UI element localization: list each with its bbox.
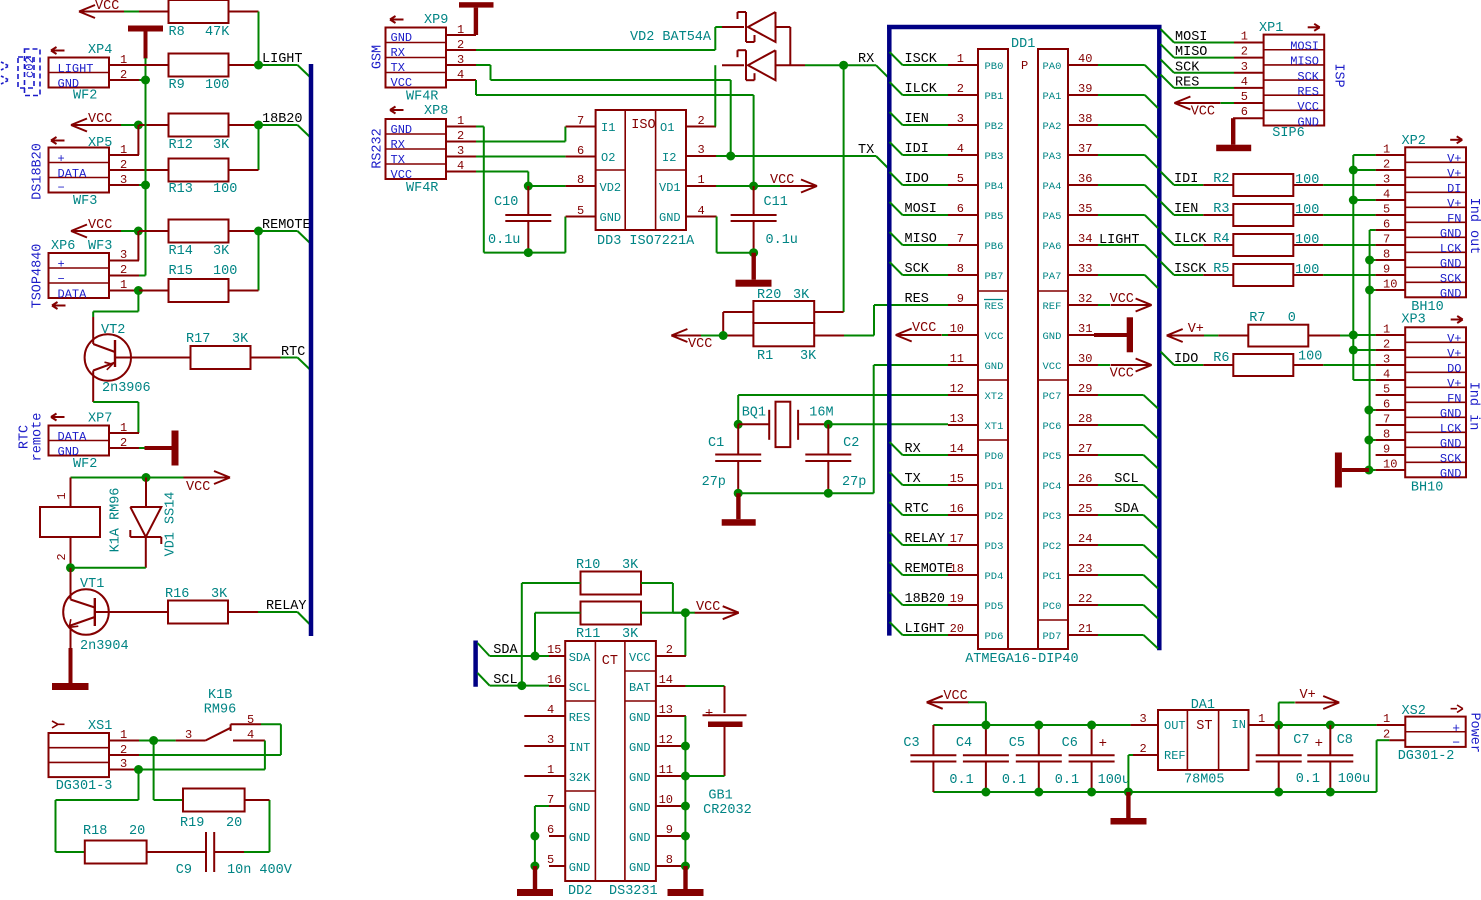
svg-text:−: − [58, 181, 65, 195]
svg-text:WF2: WF2 [73, 89, 97, 104]
pin DD2.13 (GND) [656, 715, 686, 717]
wire R3 to XP2 [1323, 214, 1375, 216]
wire DD1 PA5 to bus [1098, 214, 1145, 216]
pin XP1.2 [1234, 57, 1264, 59]
wire XS2.2 to gnd rail [1377, 739, 1390, 741]
svg-text:ISCK: ISCK [1174, 262, 1207, 277]
svg-text:2: 2 [1383, 158, 1390, 172]
pin DD1.2 (PB1) [948, 94, 978, 96]
pin DD2.9 (GND) [656, 835, 686, 837]
svg-text:39: 39 [1078, 82, 1092, 96]
svg-text:2: 2 [55, 553, 69, 560]
pin XP4.2 [109, 79, 139, 81]
junction DD2 gnd [681, 742, 690, 751]
svg-text:IDI: IDI [905, 142, 929, 157]
junction C10 top [524, 182, 533, 191]
svg-text:SCK: SCK [905, 262, 930, 277]
svg-text:32: 32 [1078, 292, 1092, 306]
svg-text:DI: DI [1447, 182, 1461, 196]
svg-text:3: 3 [1383, 353, 1390, 367]
svg-text:12: 12 [950, 382, 964, 396]
svg-text:GND: GND [1440, 407, 1462, 421]
svg-text:ISP: ISP [1331, 63, 1346, 87]
svg-text:OUT: OUT [1164, 719, 1186, 733]
svg-text:+: + [58, 152, 65, 166]
svg-text:21: 21 [1078, 622, 1092, 636]
svg-text:GND: GND [985, 361, 1004, 373]
svg-text:R17: R17 [186, 332, 210, 347]
svg-text:DD1: DD1 [1011, 37, 1035, 52]
svg-text:VCC: VCC [95, 0, 119, 14]
svg-text:MISO: MISO [905, 232, 937, 247]
bus (SDA/SCL) [473, 641, 478, 687]
svg-text:R9: R9 [169, 78, 185, 93]
svg-text:GND: GND [629, 711, 651, 725]
svg-text:2: 2 [1140, 742, 1147, 756]
junction XP6 VCC [134, 227, 143, 236]
svg-text:VCC: VCC [1297, 100, 1319, 114]
svg-text:26: 26 [1078, 472, 1092, 486]
node LIGHT (DD1 left) [890, 622, 903, 635]
pin DD2.14 (BAT) [656, 685, 686, 687]
junction TX/I2 [726, 152, 735, 161]
pin DD1.16 (PD2) [948, 514, 978, 516]
svg-text:VCC: VCC [186, 480, 210, 495]
pin XP3.1 [1376, 334, 1406, 336]
svg-text:0.1u: 0.1u [488, 233, 520, 248]
svg-text:+: + [1099, 736, 1107, 752]
wire XS1.1 to R19 [153, 741, 155, 801]
svg-text:TX: TX [905, 472, 921, 487]
junction DD2 gnd [681, 862, 690, 871]
node RELAY (DD1 left) [890, 532, 903, 545]
svg-text:3: 3 [457, 53, 464, 67]
connector XP7 [51, 416, 65, 418]
wire VD2 cathode2 [722, 64, 744, 66]
svg-text:VCC: VCC [629, 651, 651, 665]
node IEN [1161, 202, 1175, 216]
svg-text:MISO: MISO [1290, 55, 1319, 69]
wire RX to R20 [843, 65, 845, 312]
wire REMOTE to R15 [258, 231, 260, 291]
svg-text:+: + [1315, 736, 1323, 752]
svg-text:PC6: PC6 [1043, 421, 1062, 433]
svg-text:GB1: GB1 [708, 789, 732, 804]
svg-text:PD5: PD5 [985, 601, 1004, 613]
svg-text:10: 10 [1383, 278, 1397, 292]
pin XP3.4 [1376, 379, 1406, 381]
svg-text:3K: 3K [800, 349, 817, 364]
pin XP3.6 [1376, 409, 1406, 411]
svg-text:IDO: IDO [1174, 352, 1198, 367]
pin DD1.4 (PB3) [948, 154, 978, 156]
svg-text:PA3: PA3 [1043, 151, 1062, 163]
capacitor C6 [1091, 725, 1093, 755]
ground (XP4) [128, 26, 163, 32]
svg-text:5: 5 [577, 204, 584, 218]
svg-text:1: 1 [457, 114, 464, 128]
junction C1 gnd [734, 489, 743, 498]
resistor R12 [139, 124, 169, 126]
power VCC arrow (R8) [79, 11, 124, 13]
wire gnd rail to DD3 GND2 [564, 217, 566, 253]
svg-text:SCK: SCK [1440, 272, 1462, 286]
svg-text:3K: 3K [232, 332, 249, 347]
svg-text:0.1: 0.1 [1055, 773, 1079, 788]
svg-text:V+: V+ [1447, 197, 1461, 211]
power VCC arrow (R1) [671, 335, 701, 337]
svg-text:GND: GND [629, 861, 651, 875]
svg-text:PB4: PB4 [985, 181, 1004, 193]
svg-text:5: 5 [1383, 203, 1390, 217]
svg-text:+: + [58, 258, 65, 272]
wire XP8.4 to C10 [476, 171, 528, 173]
svg-text:4: 4 [1383, 188, 1390, 202]
pin DD1.9 (RES) [948, 304, 978, 306]
svg-text:R1: R1 [757, 349, 773, 364]
svg-text:3K: 3K [213, 138, 230, 153]
svg-text:+: + [1452, 721, 1460, 736]
pin DD3.5 [566, 216, 596, 218]
svg-text:PD3: PD3 [985, 541, 1004, 553]
svg-text:DD2: DD2 [568, 884, 592, 899]
svg-text:WF4R: WF4R [406, 90, 438, 105]
power VCC arrow (DD2) [685, 612, 695, 614]
svg-text:24: 24 [1078, 532, 1092, 546]
wire XS1.3 to R18 [138, 770, 140, 801]
junction XP2.10 [1365, 286, 1374, 295]
power VCC arrow (C3) [927, 701, 969, 703]
pin XS1.2 [109, 754, 139, 756]
svg-text:GND: GND [600, 211, 622, 225]
svg-text:DATA: DATA [58, 288, 88, 302]
svg-text:28: 28 [1078, 412, 1092, 426]
svg-text:13: 13 [950, 412, 964, 426]
wire R1 to RES [844, 335, 874, 337]
pin XS2.2 [1389, 739, 1405, 741]
svg-text:1: 1 [1383, 143, 1390, 157]
svg-text:29: 29 [1078, 382, 1092, 396]
wire V+ rail [1279, 724, 1377, 726]
pin DD1.8 (PB7) [948, 274, 978, 276]
svg-text:VCC: VCC [1110, 292, 1134, 307]
capacitor C9 [205, 832, 207, 872]
svg-text:C3: C3 [903, 736, 919, 751]
wire DD1 right pin to bus [1098, 424, 1144, 426]
svg-text:VD1: VD1 [659, 181, 681, 195]
wire DD1 PA6 to bus [1098, 244, 1145, 246]
pin XP5.3 [109, 184, 139, 186]
junction SDA [531, 652, 540, 661]
svg-text:11: 11 [950, 352, 964, 366]
svg-text:remote: remote [31, 413, 46, 462]
svg-text:REF: REF [1164, 749, 1186, 763]
pin DD1.5 (PB4) [948, 184, 978, 186]
svg-text:C9: C9 [176, 863, 192, 878]
svg-text:GND: GND [569, 831, 591, 845]
svg-text:RELAY: RELAY [905, 532, 946, 547]
svg-text:DO: DO [1447, 362, 1461, 376]
svg-text:2: 2 [666, 643, 673, 657]
pin DD1.26 (PC4) [1068, 484, 1098, 486]
wire R8 to LIGHT node [258, 12, 260, 66]
wire 18B20 to R13 [258, 125, 260, 170]
pin DD1.38 (PA2) [1068, 124, 1098, 126]
junction XP6.1 [134, 286, 143, 295]
bus (DD1 top) [887, 25, 1162, 30]
wire VT1 base to R16 [95, 611, 168, 613]
pin XP7.2 [109, 447, 139, 449]
pin XP9.3 [446, 64, 476, 66]
svg-text:15: 15 [950, 472, 964, 486]
pin XP2.7 [1376, 244, 1406, 246]
svg-text:LCK: LCK [1440, 422, 1462, 436]
wire gnd stem to XP4 pin2 net [145, 58, 147, 80]
svg-text:V+: V+ [1447, 332, 1461, 346]
svg-text:3: 3 [1140, 712, 1147, 726]
pin XP6.1 [109, 290, 139, 292]
pin XP2.8 [1376, 259, 1406, 261]
junction gnd rail [1034, 788, 1043, 797]
junction VD1 VCC [142, 473, 151, 482]
wire R19 right [245, 799, 270, 801]
svg-text:SDA: SDA [1114, 502, 1139, 517]
svg-text:3K: 3K [622, 627, 639, 642]
pin XP7.1 [109, 432, 139, 434]
node IDO [1161, 352, 1175, 366]
junction vcc rail [1087, 721, 1096, 730]
pin DD1.15 (PD1) [948, 484, 978, 486]
svg-text:VCC: VCC [1043, 361, 1062, 373]
svg-text:1: 1 [698, 173, 705, 187]
power VCC arrow (DD1.32 REF) [1098, 304, 1110, 306]
svg-text:V+: V+ [1447, 377, 1461, 391]
svg-text:8: 8 [957, 262, 964, 276]
svg-text:V+: V+ [1300, 688, 1316, 703]
junction gnd rail [1087, 788, 1096, 797]
svg-text:7: 7 [957, 232, 964, 246]
pin DD2.2 (VCC) [656, 655, 686, 657]
svg-text:R8: R8 [169, 25, 185, 40]
pin XP3.9 [1376, 454, 1406, 456]
svg-text:34: 34 [1078, 232, 1092, 246]
svg-text:R11: R11 [576, 627, 600, 642]
svg-text:7: 7 [547, 793, 554, 807]
svg-text:0.1u: 0.1u [766, 233, 798, 248]
junction DD2.5 [530, 862, 539, 871]
svg-text:47K: 47K [205, 25, 230, 40]
svg-text:RELAY: RELAY [266, 599, 307, 614]
svg-text:TX: TX [391, 153, 405, 167]
pin DD2.5 (GND) [549, 865, 565, 867]
wire XS1.2 to K1B.5 [139, 754, 281, 756]
resistor R9 [139, 64, 169, 66]
junction XP3.2 [1349, 346, 1358, 355]
pin DD1.20 (PD6) [948, 634, 978, 636]
pin XP2.9 [1376, 274, 1406, 276]
power VCC arrow (XP1.5) [1174, 102, 1220, 104]
node REMOTE (DD1 left) [890, 562, 903, 575]
svg-text:8: 8 [666, 853, 673, 867]
svg-text:6: 6 [577, 144, 584, 158]
svg-text:O2: O2 [601, 151, 615, 165]
svg-text:XP7: XP7 [88, 412, 112, 427]
pin XP3.3 [1376, 364, 1406, 366]
svg-text:PA7: PA7 [1043, 271, 1062, 283]
junction XS1.1 [149, 736, 158, 745]
wire crystal gnd rail [738, 492, 874, 494]
svg-text:VCC: VCC [770, 173, 794, 188]
svg-text:3: 3 [547, 733, 554, 747]
svg-text:DS18B20: DS18B20 [31, 143, 46, 200]
pin XP3.5 [1376, 394, 1406, 396]
power VCC arrow (DD1.30) [1098, 364, 1110, 366]
wire VCC(GSM) [475, 80, 477, 95]
svg-text:SCK: SCK [1440, 452, 1462, 466]
pin DD1.32 (REF) [1068, 304, 1098, 306]
junction vcc rail [981, 721, 990, 730]
svg-text:PC7: PC7 [1043, 391, 1062, 403]
svg-text:CR2032: CR2032 [703, 803, 752, 818]
wire R4 to XP2 [1323, 244, 1375, 246]
wire DD3 GND1 to C11 gnd [716, 217, 718, 253]
svg-text:GND: GND [629, 741, 651, 755]
capacitor C5 [1038, 725, 1040, 755]
svg-text:1: 1 [547, 763, 554, 777]
svg-text:8: 8 [1383, 428, 1390, 442]
svg-text:16: 16 [547, 673, 561, 687]
wire DD1 right pin to bus [1098, 484, 1144, 486]
junction XP3.6 [1364, 406, 1373, 415]
pin DD2.6 (GND) [549, 835, 565, 837]
wire R2 to XP2 [1323, 184, 1375, 186]
svg-text:20: 20 [950, 622, 964, 636]
wire XT1 [828, 423, 948, 425]
svg-text:R18: R18 [83, 824, 107, 839]
pin XS2.1 [1377, 724, 1406, 726]
svg-text:ILCK: ILCK [905, 82, 938, 97]
pin XP9.2 [446, 49, 476, 51]
svg-text:1: 1 [120, 143, 127, 157]
svg-text:PA4: PA4 [1043, 181, 1062, 193]
capacitor C7 [1278, 725, 1280, 755]
svg-text:PD1: PD1 [985, 481, 1004, 493]
pin XP2.2 [1376, 169, 1406, 171]
svg-text:R13: R13 [169, 182, 193, 197]
wire XP4.2 to gnd net [139, 79, 146, 81]
svg-text:REMOTE: REMOTE [905, 562, 954, 577]
wire R10 left [522, 582, 581, 584]
power VCC arrow (XP6) [71, 230, 121, 232]
svg-text:4: 4 [457, 159, 464, 173]
junction C7 bottom [1274, 788, 1283, 797]
junction DD2 gnd [681, 802, 690, 811]
pin DD2.10 (GND) [656, 805, 686, 807]
svg-text:ATMEGA16-DIP40: ATMEGA16-DIP40 [965, 652, 1078, 667]
svg-text:VD2 BAT54A: VD2 BAT54A [630, 30, 712, 45]
svg-text:12: 12 [659, 733, 673, 747]
svg-text:1: 1 [120, 728, 127, 742]
svg-text:BQ1: BQ1 [742, 406, 766, 421]
svg-text:XP8: XP8 [424, 104, 448, 119]
pin XP8.4 [446, 171, 476, 173]
svg-text:RES: RES [1175, 75, 1199, 90]
wire XP5.1 up to VCC [137, 125, 139, 155]
pin DD1.10 (VCC) [948, 334, 978, 336]
junction DD2 VCC [681, 608, 690, 617]
power VCC arrow (DD1.10) [896, 334, 942, 336]
svg-text:100: 100 [213, 182, 237, 197]
svg-text:RES: RES [985, 301, 1004, 313]
svg-text:K1B: K1B [208, 688, 232, 703]
svg-text:SDA: SDA [569, 651, 591, 665]
junction C10 bottom [524, 248, 533, 257]
svg-text:VCC: VCC [688, 337, 712, 352]
svg-text:R15: R15 [169, 264, 193, 279]
svg-text:100: 100 [1298, 350, 1322, 365]
svg-text:DATA: DATA [58, 167, 88, 181]
svg-text:27p: 27p [702, 475, 726, 490]
pin DD1.24 (PC2) [1068, 544, 1098, 546]
svg-text:Ind in: Ind in [1466, 382, 1481, 431]
svg-text:PA6: PA6 [1043, 241, 1062, 253]
svg-text:VD2: VD2 [600, 181, 622, 195]
junction XP2.2 [1349, 166, 1358, 175]
power VCC arrow (K1A) [71, 477, 184, 479]
pin DD2.12 (GND) [656, 745, 686, 747]
svg-text:2: 2 [698, 114, 705, 128]
pin DD3.7 [566, 126, 596, 128]
pin XS1.3 [109, 769, 139, 771]
wire TX to bus [731, 155, 876, 157]
svg-text:PD6: PD6 [985, 631, 1004, 643]
svg-text:PD2: PD2 [985, 511, 1004, 523]
svg-text:GND: GND [1440, 467, 1462, 481]
svg-text:2: 2 [120, 743, 127, 757]
svg-text:PB1: PB1 [985, 91, 1004, 103]
pin DD1.1 (PB0) [948, 64, 978, 66]
svg-text:R12: R12 [169, 138, 193, 153]
junction XP3.1 [1349, 331, 1358, 340]
svg-text:GND: GND [629, 801, 651, 815]
junction DA1 gnd [1124, 788, 1133, 797]
svg-text:SCL: SCL [493, 673, 517, 688]
bus (DD1 left) [887, 25, 892, 636]
svg-text:TX: TX [391, 61, 405, 75]
svg-text:9: 9 [1383, 443, 1390, 457]
svg-text:V+: V+ [1447, 167, 1461, 181]
svg-text:0.1: 0.1 [949, 773, 973, 788]
wire GND rail (XP2) [1370, 229, 1376, 231]
pin DA1.2 (REF) [1133, 754, 1158, 756]
svg-text:ISO: ISO [631, 118, 655, 133]
svg-text:XP3: XP3 [1401, 313, 1425, 328]
wire VCC to R8 [124, 11, 139, 13]
svg-text:3K: 3K [213, 244, 230, 259]
alt-body C02 (dashed) [25, 49, 41, 96]
capacitor C11 [753, 186, 755, 215]
svg-text:1: 1 [120, 278, 127, 292]
ground (XP7) [139, 447, 145, 449]
svg-text:2n3906: 2n3906 [102, 381, 151, 396]
pin XP2.6 [1376, 229, 1406, 231]
svg-text:RTC: RTC [905, 502, 929, 517]
svg-text:0.1: 0.1 [1002, 773, 1026, 788]
svg-text:PB0: PB0 [985, 61, 1004, 73]
svg-text:IEN: IEN [1174, 202, 1198, 217]
svg-text:17: 17 [950, 532, 964, 546]
wire REF to gnd [1128, 754, 1133, 756]
